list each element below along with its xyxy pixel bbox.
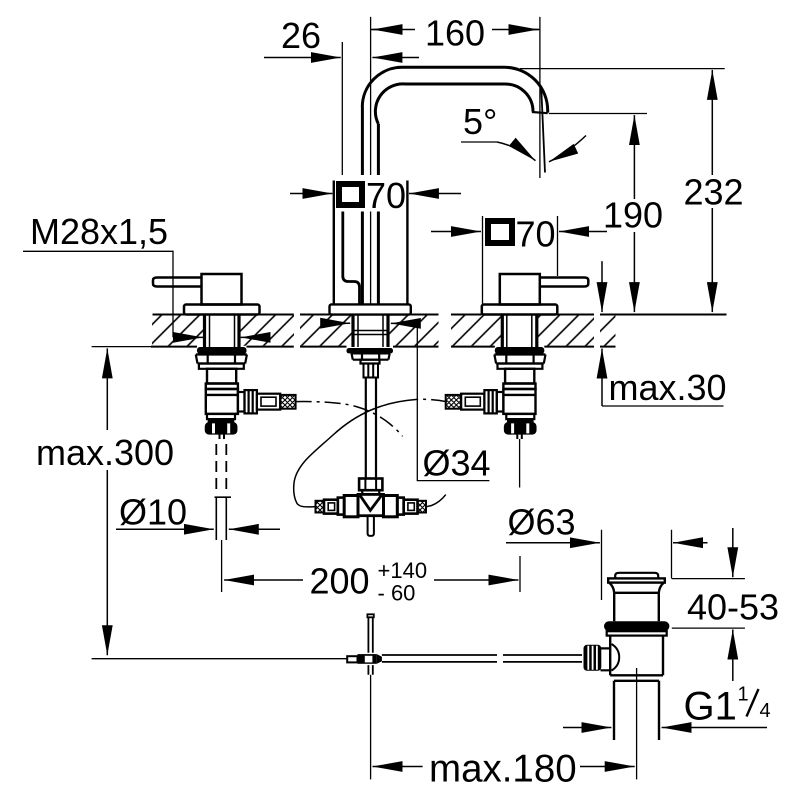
right valve assembly (mirror of left) [446,274,589,439]
svg-text:Ø34: Ø34 [423,443,491,484]
T-connector left adapter [338,498,344,515]
max.300 deck-bottom extension [92,346,152,348]
dim 40-53 ext lines [672,579,745,629]
pop-up rod coupling block [358,654,382,664]
svg-text:1: 1 [738,684,749,706]
svg-text:max.180: max.180 [429,748,577,791]
square symbol right [488,221,512,243]
svg-text:max.300: max.300 [36,432,174,473]
left mounting nut [196,355,247,364]
deck hatching left slab [152,315,616,346]
deck top line right slab (extends right as extension line) [600,314,727,316]
svg-text:26: 26 [281,15,321,56]
drain main body [610,636,663,681]
center shank joint lines [355,331,387,335]
pop-up rod clamp [347,656,357,662]
deck hatching middle slab [300,315,353,346]
left shank outer walls [205,315,240,348]
T-connector right fitting window [404,500,418,514]
left valve outlet stub [238,392,245,412]
svg-text:200: 200 [310,561,370,602]
drain tailpipe [614,681,659,740]
left pull rod dashed (hidden) [216,444,226,495]
left valve bottom seal bands [208,419,235,423]
deck bottom line right slab [600,346,616,348]
deck top line middle slab [300,314,594,316]
left valve bottom step [207,414,235,419]
dim 26 extension [341,42,343,175]
M28x1,5 leader [23,251,173,337]
svg-text:- 60: - 60 [378,581,416,606]
svg-text:190: 190 [603,195,663,236]
dim square70 right ext lines [483,216,558,305]
spout vertical tube left wall [361,107,364,304]
dim square70 center arrows [290,193,332,195]
T-connector left fitting window [324,500,338,514]
dim 160 extension right / 5deg vertical reference [539,17,541,178]
svg-text:232: 232 [684,172,744,213]
T-connector left coupling nut [344,496,358,517]
T-connector neck [362,490,379,494]
dim 40-53 arrows [732,528,734,577]
drain centerline [636,668,638,779]
M28x1,5 arrows [174,336,203,338]
dim O10 arrows [116,528,214,530]
text G1 slash [747,689,759,717]
T-connector top hex nut [359,479,382,491]
left valve bottom nut [206,423,236,433]
left pull rod solid [215,497,232,540]
5deg tilted axis line [541,89,545,173]
deck bottom line left slab [151,346,294,348]
faucet body left side [333,181,335,305]
spout internal waterway bend [343,212,360,304]
drain knurled knob [584,645,602,671]
horizontal reference line [92,658,348,660]
T-connector check valve V [360,496,381,511]
right hose solid curve to left T-arm [294,399,417,507]
svg-text:Ø10: Ø10 [119,492,187,533]
left nut lower ring [199,364,244,369]
center shank outer walls [353,315,388,347]
pop-up rod lower stub [368,665,372,675]
O34 leader box [417,323,489,480]
drain seal seat step [607,631,667,635]
dim 160 line [371,29,540,31]
svg-text:70: 70 [516,214,556,255]
pop-up rod upper section [367,614,373,653]
T-connector right braid cap [418,501,427,513]
drain ball socket arc [612,644,620,671]
center compression fitting [364,364,379,378]
dim 26 arrows [264,57,341,59]
left valve step [206,384,238,390]
dim O63 arrows [506,542,600,544]
faucet body right side [406,181,408,305]
left hose braid [280,395,295,409]
svg-text:Ø63: Ø63 [508,502,576,543]
left shank seal [197,347,247,354]
T-connector left braid cap [316,501,325,513]
dim 190 ext line at outlet [549,113,647,115]
left handle cap [202,274,242,305]
dim O63 ext lines [602,530,672,600]
center shank seal [347,348,394,353]
spout outer contour [362,67,547,112]
spout centerline extension [370,17,372,304]
svg-text:5°: 5° [463,101,497,142]
faucet body escutcheon [330,304,411,314]
center supply drop tube [366,378,376,479]
left valve upper body [207,369,236,384]
T-connector center body [358,494,384,515]
spout vertical tube right wall [377,124,380,304]
max.30 upper arrow [601,261,603,312]
center step below nut [361,360,380,364]
dim 190 line+arrows [633,115,635,199]
svg-text:70: 70 [366,175,406,216]
left hose adapter [257,394,280,410]
max.30 lower arrow+leader [601,349,603,407]
svg-text:G1: G1 [684,685,737,729]
left handle escutcheon [184,305,260,315]
dim 200 arrows [224,579,303,581]
left valve outlet hex nut [245,390,257,413]
right valve centerline to 200 dim [519,439,521,592]
5deg right arc arrow [549,136,586,162]
5deg leader line [461,141,497,143]
5deg left arc arrow [497,142,536,161]
right hose dash-dot segment [417,399,447,401]
T-connector bottom stub [368,516,374,536]
dim 232 ext line at spout top [520,68,725,70]
drain cap flange [608,578,665,582]
left valve bottom stub [220,433,225,439]
svg-text:160: 160 [425,13,485,54]
dim 160 arrows [373,29,401,31]
dim G1 1/4 arrows [563,727,611,729]
T-connector right adapter [397,498,403,515]
left valve lower body [206,389,238,414]
deck top line left slab [151,315,727,347]
svg-text:+140: +140 [378,558,428,583]
svg-text:40-53: 40-53 [687,587,779,628]
pop-up rod centerline / max180 extension [370,675,372,780]
drain rubber seal ring [604,621,669,631]
dim square70 right arrows [431,231,481,233]
deck bottom line middle slab [300,346,594,348]
left handle lever [153,278,202,287]
T-connector right coupling nut [384,496,398,517]
horizontal waste lever rod [382,655,582,662]
drain upper cylinder [614,593,659,622]
drain neck taper [609,583,664,593]
spout inner contour [375,84,533,124]
svg-text:M28x1,5: M28x1,5 [30,211,168,252]
drain ball-rod stem [601,648,611,670]
left shank inner walls [210,315,235,348]
dim max.180 arrows [373,766,423,768]
left pull rod centerline to 200 dim [221,540,223,592]
dim 232 line+arrows [711,70,713,175]
center mounting nut [352,353,390,359]
O34 shank arrows [325,322,350,324]
drain plug cap [615,573,658,579]
deck hatching right slab [600,315,616,346]
svg-text:max.30: max.30 [609,367,727,408]
square symbol center [339,184,362,205]
left hose curl into right T-arm [426,495,446,507]
max.300 line+arrows [106,348,108,430]
svg-text:4: 4 [760,700,771,722]
left hose dash-dot curve to right T-arm [296,402,403,437]
spout outlet face [532,112,548,113]
center shank inner walls [358,315,383,347]
